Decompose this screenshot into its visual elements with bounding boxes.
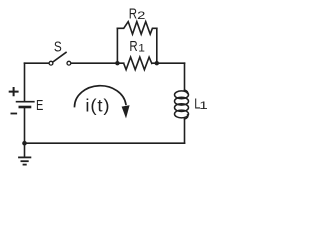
ground bar 1 <box>19 156 30 158</box>
ground bar 2 <box>21 160 27 162</box>
resistor R1 <box>124 57 152 70</box>
inductor L1 coil loop 1 <box>175 91 189 99</box>
resistor R2 branch left vertical <box>116 28 118 63</box>
ground bar 3 <box>24 164 26 166</box>
resistor R2 branch right vertical <box>156 28 158 63</box>
svg-text:1: 1 <box>138 43 145 54</box>
svg-text:i(t): i(t) <box>85 96 110 115</box>
switch S blade <box>53 52 66 62</box>
wire top middle (switch to R1 node) <box>71 62 124 64</box>
svg-text:R: R <box>129 37 138 54</box>
wire top right (R1 node to corner) <box>152 62 185 64</box>
ground stub <box>24 143 26 156</box>
svg-text:E: E <box>36 96 44 113</box>
inductor top hook <box>185 90 188 94</box>
loop current arc i(t) <box>75 86 126 107</box>
junction node dot ground <box>22 141 27 146</box>
inductor L1 coil loop 2 <box>175 97 189 105</box>
junction node dot left of R1 <box>115 61 119 65</box>
switch terminal circle left <box>49 61 53 65</box>
inductor L1 coil loop 3 <box>175 104 189 112</box>
minus sign of source <box>11 113 16 115</box>
plus sign of source <box>10 88 18 95</box>
svg-text:R: R <box>129 5 138 22</box>
resistor R2 <box>117 22 156 35</box>
inductor L1 coil loop 4 <box>175 110 189 118</box>
switch terminal circle right <box>67 61 71 65</box>
inductor bottom hook <box>185 115 188 119</box>
wire left vertical (top of battery) <box>24 63 26 101</box>
wire right vertical below inductor <box>184 119 186 143</box>
battery E long positive plate <box>17 101 34 103</box>
svg-text:S: S <box>54 38 62 55</box>
wire left vertical (below battery) <box>24 108 26 143</box>
wire bottom horizontal <box>25 142 185 144</box>
loop current arrowhead <box>122 105 130 118</box>
svg-text:1: 1 <box>199 99 207 111</box>
svg-text:2: 2 <box>137 9 145 22</box>
battery E short negative plate <box>20 106 30 109</box>
junction node dot right of R1 <box>155 61 159 65</box>
wire top-left horizontal <box>25 62 50 64</box>
wire right vertical above inductor <box>184 63 186 90</box>
